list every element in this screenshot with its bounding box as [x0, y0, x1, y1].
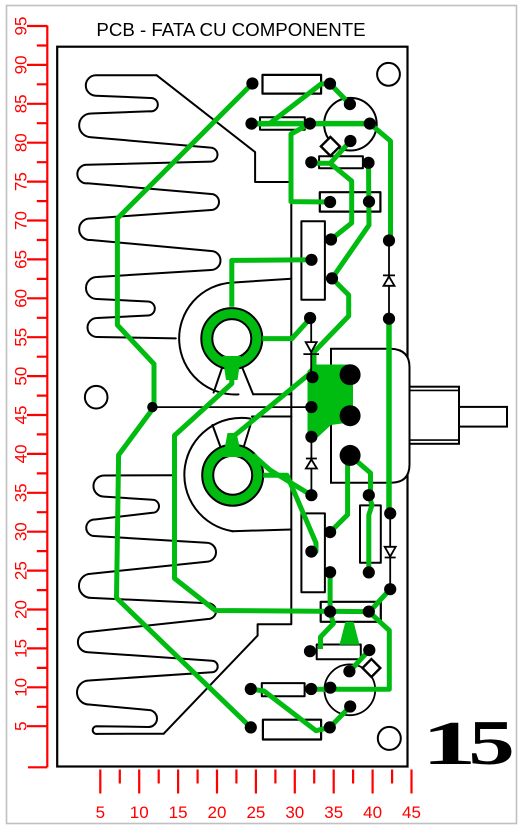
jumper wire — [152, 406, 311, 408]
pad R10 left — [245, 683, 257, 695]
connector shaft inner — [410, 387, 460, 444]
svg-text:25: 25 — [12, 561, 31, 580]
svg-text:95: 95 — [12, 17, 31, 36]
wire D4 to R8 right — [369, 589, 390, 611]
resistor R7 (vertical) — [301, 513, 325, 592]
diode D2 symbol — [303, 342, 319, 354]
svg-text:5: 5 — [468, 709, 515, 779]
diamond marker Q2 — [362, 659, 380, 677]
pad Q2 top — [343, 665, 355, 677]
pad R8 left — [324, 606, 336, 618]
mounting hole bottom-right — [378, 727, 401, 750]
pad R9 left — [304, 645, 316, 657]
wire R1 to Q1 top — [330, 84, 350, 104]
diode D1 symbol — [383, 275, 395, 285]
svg-text:45: 45 — [402, 803, 421, 822]
connector body — [331, 349, 410, 483]
transistor Q1 — [324, 98, 377, 151]
heatsink branch T1 legs line — [253, 393, 291, 395]
diode D3 — [310, 437, 312, 495]
pad D1 top — [383, 234, 395, 246]
resistor R9 — [317, 645, 361, 660]
ruler bottom — [100, 770, 411, 794]
wire Q1 bottom through R3 — [311, 141, 350, 163]
diamond marker Q1 — [321, 137, 340, 156]
wire R8 right via R9 to Q2 top — [350, 650, 369, 671]
component box R8 — [321, 602, 381, 622]
diode D2 — [310, 318, 312, 377]
toroid T1 lead fill — [223, 356, 242, 380]
pad jumper left — [147, 402, 157, 412]
pad R7 mid — [305, 546, 317, 558]
pad R5 bottom — [326, 272, 338, 284]
pad R11 right — [324, 721, 336, 733]
PCB board outline — [57, 47, 407, 767]
pad Q1 top — [344, 98, 356, 110]
diode D1 — [388, 241, 390, 319]
wire toroid T1 top to R5 mid — [232, 260, 312, 307]
resistor R11 — [263, 720, 321, 740]
funnel trace — [340, 622, 360, 645]
wire toroid T1 bottom long rail — [175, 358, 390, 689]
wire D3 pad to toroid T2 — [253, 455, 311, 495]
toroid T1 legs — [214, 362, 254, 394]
pad D2 top — [304, 312, 316, 324]
pad connector 2 — [340, 405, 361, 426]
resistor R5 (vertical) — [301, 221, 325, 299]
arc around toroid T2 — [184, 418, 250, 531]
pad Q1 bottom — [344, 135, 356, 147]
mounting hole top-right — [377, 63, 400, 86]
resistor R6 (vertical) — [360, 505, 381, 562]
svg-text:15: 15 — [169, 803, 188, 822]
connector fill polygon — [308, 365, 354, 438]
wire R2 right to R4 — [291, 124, 330, 202]
pad R5 mid — [305, 254, 317, 266]
ruler left — [27, 26, 47, 768]
pad R8 right — [363, 606, 375, 618]
pad connector 1 — [340, 364, 361, 385]
svg-text:85: 85 — [12, 94, 31, 113]
svg-text:30: 30 — [12, 522, 31, 541]
toroid T2 — [202, 445, 263, 506]
wire diode D1 to diode D4 rail — [386, 319, 392, 514]
heatsink branch T2 legs line — [252, 416, 291, 418]
wire R8 left to R9 body — [321, 612, 334, 649]
resistor R3 — [319, 156, 363, 168]
pad D3 bottom — [305, 489, 317, 501]
pad R7 bottom — [324, 566, 336, 578]
diode D4 symbol — [385, 547, 396, 558]
wire R3 to R5 top pad — [330, 163, 352, 239]
pad R10 right — [305, 683, 317, 695]
svg-text:5: 5 — [12, 721, 31, 730]
svg-text:15: 15 — [12, 639, 31, 658]
svg-text:60: 60 — [12, 289, 31, 308]
svg-text:20: 20 — [12, 600, 31, 619]
resistor R10 — [262, 683, 305, 696]
pad R6 bottom — [363, 566, 375, 578]
svg-text:75: 75 — [12, 172, 31, 191]
wire R3 right R4 right down to R5 bottom — [332, 163, 369, 279]
pad R1 left — [246, 77, 258, 89]
wire R2 through Q1 — [252, 121, 370, 127]
resistor R1 — [263, 75, 322, 94]
pad Q2 bottom — [344, 700, 356, 712]
resistor R2 — [260, 117, 305, 130]
pad R3 left — [305, 156, 317, 168]
svg-text:80: 80 — [12, 133, 31, 152]
svg-text:10: 10 — [130, 803, 149, 822]
wire Q1 right to diode D1 — [370, 124, 391, 241]
toroid T2 legs — [213, 417, 253, 453]
wire R5 bottom to connector fill — [314, 278, 349, 368]
pad R1 right — [324, 78, 336, 90]
wire toroid T2 right to R7 mid — [263, 475, 316, 551]
diode D3 symbol — [306, 459, 317, 469]
pad R9 right — [363, 644, 375, 656]
svg-text:40: 40 — [363, 803, 382, 822]
wire R6 internal — [369, 495, 372, 572]
transistor Q2 — [324, 664, 375, 715]
wire R1 to R2 — [252, 84, 331, 124]
mounting hole left — [85, 386, 108, 409]
toroid T1 — [201, 308, 262, 369]
pad Q1 right — [364, 118, 376, 130]
heatsink top boundary — [157, 75, 292, 733]
svg-text:25: 25 — [246, 803, 265, 822]
svg-text:50: 50 — [12, 367, 31, 386]
pad jumper right — [305, 401, 317, 413]
pad R6 top — [363, 489, 375, 501]
svg-text:35: 35 — [324, 803, 343, 822]
svg-text:5: 5 — [96, 803, 105, 822]
pad R2 left — [245, 118, 257, 130]
arc around toroid T1 — [179, 283, 238, 395]
pad Q2 left — [324, 682, 336, 694]
connector shaft outer — [459, 407, 507, 427]
wire R10 left to R11 right — [251, 689, 330, 731]
svg-text:30: 30 — [285, 803, 304, 822]
svg-text:55: 55 — [12, 328, 31, 347]
pad R4 right — [363, 196, 375, 208]
board number 15 — [422, 708, 515, 778]
svg-text:40: 40 — [12, 444, 31, 463]
wire Q2 bottom to R11 right — [330, 707, 350, 728]
toroid T2 lead fill — [223, 433, 242, 457]
pad D4 bottom — [384, 583, 396, 595]
pad D4 top — [384, 507, 396, 519]
pad R4 left — [324, 196, 336, 208]
pad R3 right — [362, 157, 374, 169]
svg-text:20: 20 — [208, 803, 227, 822]
heatsink branch to arc T2 bottom — [232, 530, 291, 532]
svg-text:PCB - FATA CU COMPONENTE: PCB - FATA CU COMPONENTE — [96, 19, 365, 40]
svg-text:70: 70 — [12, 211, 31, 230]
pad D3 top — [305, 431, 317, 443]
svg-text:10: 10 — [12, 678, 31, 697]
diode D4 — [389, 513, 391, 589]
wire long left rail — [117, 84, 253, 728]
wire R7 top to connector pad3 — [330, 455, 350, 532]
component box R4 — [320, 192, 381, 211]
heatsink branch to arc T1 top — [232, 279, 291, 283]
wire pad3 to R6 top — [350, 455, 370, 495]
pad R5 top — [325, 233, 337, 245]
svg-text:90: 90 — [12, 55, 31, 74]
heatsink top serpentine — [77, 75, 220, 338]
pad D2 bottom — [306, 371, 318, 383]
wire toroid T2 top to jumper pad — [233, 374, 310, 455]
pad connector 3 — [340, 445, 361, 466]
pad R2 right — [304, 118, 316, 130]
svg-text:65: 65 — [12, 250, 31, 269]
svg-text:35: 35 — [12, 483, 31, 502]
wire R7 bottom to R8 left — [328, 572, 333, 611]
pad D1 bottom — [383, 313, 395, 325]
wire toroid T1 right to diode D2 — [262, 319, 310, 339]
pad R11 left — [245, 721, 257, 733]
svg-text:45: 45 — [12, 406, 31, 425]
heatsink bottom serpentine — [77, 475, 218, 734]
pad R7 top — [324, 526, 336, 538]
